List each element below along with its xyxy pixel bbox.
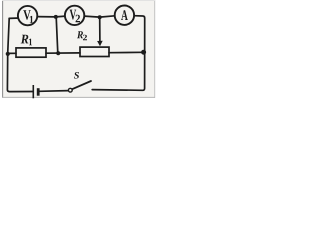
wire vertical between junctions (V1/V2 node down to R1-R2 node) bbox=[56, 17, 58, 53]
resistor R2 (rheostat body) bbox=[80, 47, 109, 56]
voltmeter V2 bbox=[65, 6, 84, 25]
wire junction to V2 bbox=[56, 15, 65, 18]
wire battery to switch bbox=[40, 90, 69, 93]
node junction middle (R1-R2) bbox=[56, 51, 60, 55]
battery short plate bbox=[37, 88, 40, 96]
label R1 bbox=[21, 35, 32, 46]
wire top-left stub bbox=[9, 17, 19, 19]
wire R1 to R2 bbox=[46, 52, 80, 54]
ammeter A bbox=[115, 6, 134, 25]
node junction middle-left bbox=[6, 52, 10, 56]
wire left vertical bbox=[7, 18, 33, 91]
node junction top (wiper) bbox=[98, 15, 102, 19]
frame bbox=[2, 0, 155, 98]
wire wiper junction to A bbox=[100, 16, 115, 17]
wire rheostat wiper drop bbox=[99, 17, 101, 42]
resistor R1 bbox=[16, 48, 46, 57]
wire V1 to junction bbox=[37, 16, 56, 18]
switch S lever bbox=[72, 81, 91, 89]
wire middle left (node to R1) bbox=[8, 52, 16, 54]
wire V2 to wiper junction bbox=[84, 16, 99, 17]
battery long plate bbox=[32, 85, 34, 98]
label R2 bbox=[77, 31, 87, 40]
wire A to top-right corner and right vertical bbox=[92, 16, 145, 91]
rheostat wiper arrowhead bbox=[97, 41, 103, 47]
switch S contact bbox=[68, 88, 72, 92]
label S bbox=[74, 72, 79, 79]
node junction middle-right bbox=[141, 50, 146, 55]
wire R2 to right vertical bbox=[109, 51, 144, 53]
node junction top (V1-V2) bbox=[54, 15, 58, 19]
voltmeter V1 bbox=[18, 6, 37, 25]
